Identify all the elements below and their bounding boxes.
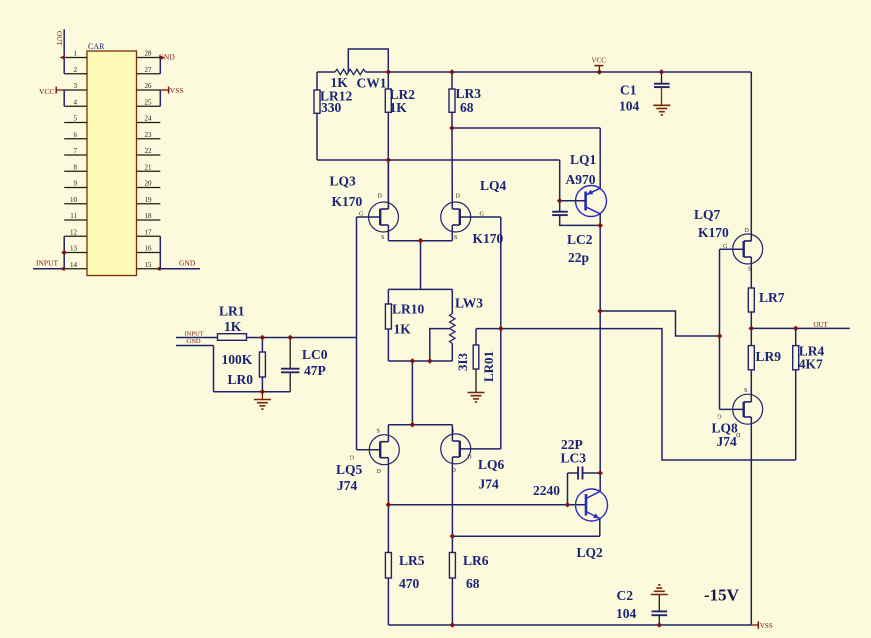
svg-text:D: D <box>456 194 461 200</box>
svg-text:22: 22 <box>145 147 153 155</box>
svg-text:LC2: LC2 <box>567 232 593 247</box>
svg-text:LC0: LC0 <box>302 347 328 362</box>
svg-text:LR1: LR1 <box>219 304 245 319</box>
svg-text:INPUT: INPUT <box>185 330 204 337</box>
svg-text:16: 16 <box>145 245 153 253</box>
svg-text:J74: J74 <box>337 478 358 493</box>
svg-text:GND: GND <box>179 258 196 267</box>
svg-text:15: 15 <box>145 261 153 269</box>
svg-text:A970: A970 <box>566 172 596 187</box>
svg-text:9: 9 <box>74 180 78 188</box>
svg-text:13: 13 <box>70 245 78 253</box>
svg-text:LQ5: LQ5 <box>336 462 363 477</box>
svg-text:LR01: LR01 <box>481 351 496 382</box>
svg-text:K170: K170 <box>698 225 729 240</box>
svg-text:24: 24 <box>145 115 153 123</box>
svg-text:S: S <box>451 429 454 435</box>
svg-text:3: 3 <box>74 82 78 90</box>
svg-text:21: 21 <box>145 163 153 171</box>
svg-text:VSS: VSS <box>170 86 184 95</box>
svg-text:470: 470 <box>399 576 420 591</box>
svg-text:25: 25 <box>145 98 153 106</box>
svg-text:LR7: LR7 <box>759 290 785 305</box>
svg-text:LQ7: LQ7 <box>694 207 721 222</box>
svg-text:C2: C2 <box>617 588 634 603</box>
svg-text:104: 104 <box>619 99 640 114</box>
svg-text:INPUT: INPUT <box>36 258 59 267</box>
svg-text:1: 1 <box>74 50 78 58</box>
svg-text:D: D <box>378 194 383 200</box>
svg-text:LR0: LR0 <box>228 372 254 387</box>
svg-text:D: D <box>745 228 750 234</box>
svg-text:G: G <box>723 244 728 250</box>
svg-text:11: 11 <box>70 212 77 220</box>
svg-text:S: S <box>744 388 747 394</box>
svg-text:68: 68 <box>466 576 480 591</box>
svg-text:4: 4 <box>74 98 78 106</box>
svg-text:LQ6: LQ6 <box>478 457 505 472</box>
svg-text:3I3: 3I3 <box>455 352 470 371</box>
svg-text:1K: 1K <box>394 322 412 337</box>
svg-text:LR10: LR10 <box>392 302 425 317</box>
svg-text:G: G <box>717 413 722 419</box>
svg-text:D: D <box>377 469 382 475</box>
svg-text:LR6: LR6 <box>463 553 489 568</box>
svg-text:VCC: VCC <box>592 57 607 65</box>
svg-text:26: 26 <box>145 82 153 90</box>
svg-text:6: 6 <box>74 131 78 139</box>
svg-text:VSS: VSS <box>760 622 773 630</box>
svg-text:J74: J74 <box>717 434 738 449</box>
svg-text:1K: 1K <box>224 319 242 334</box>
svg-text:4K7: 4K7 <box>799 357 823 372</box>
svg-text:S: S <box>748 267 751 273</box>
svg-text:K170: K170 <box>332 194 363 209</box>
svg-text:G: G <box>349 454 354 460</box>
svg-text:LQ3: LQ3 <box>330 174 357 189</box>
svg-text:2: 2 <box>74 66 78 74</box>
svg-text:LR9: LR9 <box>756 349 782 364</box>
svg-text:10: 10 <box>70 196 78 204</box>
svg-text:5: 5 <box>74 115 78 123</box>
svg-text:12: 12 <box>70 228 78 236</box>
svg-text:LQ2: LQ2 <box>577 545 604 560</box>
svg-text:1K: 1K <box>390 100 408 115</box>
svg-text:G: G <box>480 212 485 218</box>
svg-text:22p: 22p <box>568 250 589 265</box>
svg-text:OUT: OUT <box>814 321 829 329</box>
svg-text:-15V: -15V <box>704 586 740 605</box>
svg-text:VCC: VCC <box>39 87 54 96</box>
svg-text:104: 104 <box>616 606 637 621</box>
svg-text:S: S <box>454 235 457 241</box>
svg-text:18: 18 <box>145 212 153 220</box>
svg-text:J74: J74 <box>479 477 500 492</box>
svg-text:2240: 2240 <box>533 483 560 498</box>
svg-text:C1: C1 <box>620 82 637 97</box>
svg-text:LW3: LW3 <box>455 296 483 311</box>
svg-text:28: 28 <box>145 50 153 58</box>
svg-text:S: S <box>381 235 384 241</box>
svg-text:68: 68 <box>460 100 474 115</box>
svg-text:G: G <box>359 212 364 218</box>
svg-text:OUT: OUT <box>55 31 63 46</box>
svg-text:K170: K170 <box>473 231 504 246</box>
svg-text:LR3: LR3 <box>456 86 482 101</box>
svg-text:19: 19 <box>145 196 153 204</box>
svg-text:20: 20 <box>145 180 153 188</box>
svg-text:100K: 100K <box>222 352 253 367</box>
svg-text:CAR: CAR <box>88 42 105 51</box>
svg-text:S: S <box>377 429 380 435</box>
svg-text:7: 7 <box>74 147 78 155</box>
svg-text:27: 27 <box>145 66 153 74</box>
svg-text:14: 14 <box>70 261 78 269</box>
svg-text:LR5: LR5 <box>399 553 425 568</box>
svg-text:47P: 47P <box>304 363 326 378</box>
svg-text:LQ1: LQ1 <box>570 152 597 167</box>
svg-text:GND: GND <box>187 338 201 345</box>
svg-text:330: 330 <box>321 100 342 115</box>
svg-text:23: 23 <box>145 131 153 139</box>
svg-text:LC3: LC3 <box>561 451 587 466</box>
svg-text:17: 17 <box>145 228 153 236</box>
svg-text:D: D <box>452 468 457 474</box>
svg-text:8: 8 <box>74 163 78 171</box>
svg-text:CW1: CW1 <box>357 76 387 91</box>
svg-text:LQ4: LQ4 <box>480 178 507 193</box>
svg-text:G: G <box>467 453 472 459</box>
